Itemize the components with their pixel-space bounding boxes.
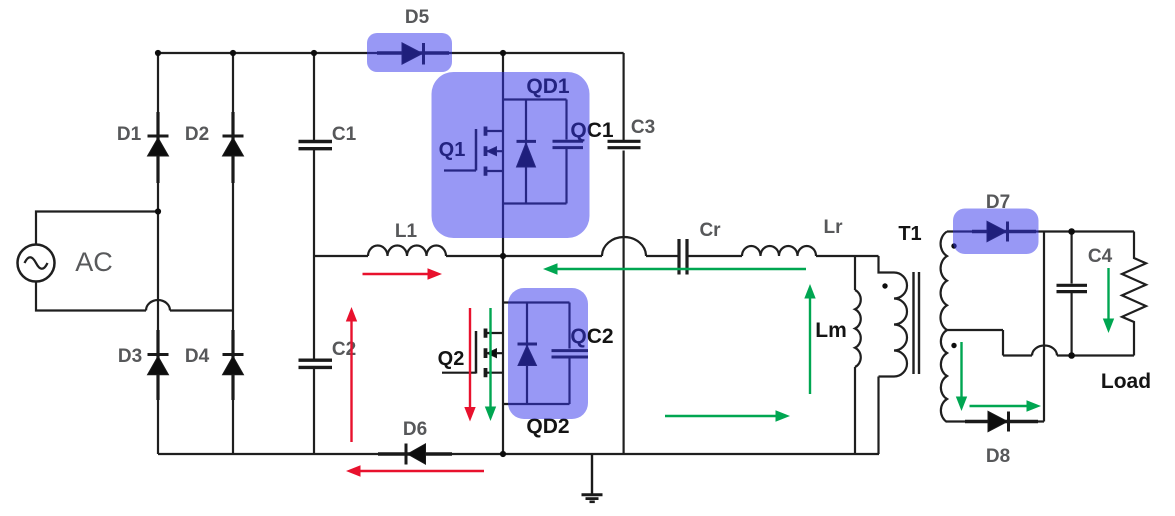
wire red current arrow right at L1 xyxy=(363,268,443,279)
wire QC2 upper lead xyxy=(568,303,570,349)
capacitor C4 xyxy=(1057,285,1088,291)
svg-text:T1: T1 xyxy=(898,223,921,245)
svg-text:D5: D5 xyxy=(405,7,430,28)
node T1 primary polarity dot xyxy=(882,283,887,288)
wire Lm lower lead xyxy=(854,367,856,454)
svg-text:C3: C3 xyxy=(631,117,655,138)
wire D7 cathode to output plus rail xyxy=(1008,230,1135,232)
wire QD2 QC2 top branch xyxy=(503,301,570,303)
transformer T1 secondary top winding xyxy=(940,232,947,331)
wire hop to Cr xyxy=(646,255,678,257)
node Q2 source bottom junction xyxy=(500,451,506,457)
svg-text:D2: D2 xyxy=(185,124,209,145)
wire QC1 upper lead xyxy=(565,100,567,140)
wire bottom rail xyxy=(158,453,879,455)
wire C4 upper lead xyxy=(1070,232,1072,284)
wire red current arrow up at C2 xyxy=(346,307,357,442)
diode QD2 (body diode of Q2) xyxy=(518,303,538,405)
wire AC source top lead xyxy=(36,212,158,246)
node half-bridge mid junction xyxy=(500,253,506,259)
wire secondary top to D7 xyxy=(947,230,987,232)
wire C1 to C2 column xyxy=(313,150,315,359)
wire C3 column lower xyxy=(622,151,624,455)
inductor Lm xyxy=(855,290,861,367)
svg-text:C4: C4 xyxy=(1088,246,1113,267)
node C4 top junction xyxy=(1068,228,1075,235)
node top rail C1 junction xyxy=(311,50,317,56)
svg-text:C1: C1 xyxy=(332,124,357,145)
highlight over D5 xyxy=(367,33,452,72)
transformer T1 core xyxy=(914,272,920,374)
capacitor C3 xyxy=(608,141,641,147)
node C4 bottom junction xyxy=(1068,352,1075,359)
wire crossover hop over D1/D3 column xyxy=(146,300,170,311)
svg-text:D3: D3 xyxy=(118,346,142,367)
highlight over Q1 block xyxy=(432,72,590,238)
wire QD1 QC1 bottom branch xyxy=(503,202,567,204)
wire crossover hop over D8 column xyxy=(1032,346,1057,356)
node top rail Q1 junction xyxy=(500,50,506,56)
op-amp none; transistor Q1 MOSFET xyxy=(444,127,503,176)
wire green current arrow down at C4 xyxy=(1103,268,1114,333)
wire center tap step xyxy=(947,330,1032,356)
transistor Q2 MOSFET xyxy=(442,329,503,378)
wire AC bottom to D2/D4 column xyxy=(170,309,233,311)
node T1 secondary top polarity dot xyxy=(951,243,956,248)
wire C3 column upper xyxy=(622,53,624,141)
diode D3 xyxy=(148,330,169,400)
resistor Load xyxy=(1122,232,1146,356)
diode D5 xyxy=(377,43,449,65)
wire Lr to transformer xyxy=(816,256,894,273)
wire Q2 column (mid node to bottom rail) xyxy=(502,256,504,454)
diode D4 xyxy=(223,330,244,400)
svg-text:Q2: Q2 xyxy=(438,348,465,370)
wire green current arrow down at Q2 xyxy=(485,308,496,421)
wire Cr to Lr xyxy=(689,255,743,257)
diode D2 xyxy=(223,112,244,183)
highlight over D7 xyxy=(953,209,1039,255)
wire AC source bottom lead xyxy=(36,282,146,311)
svg-text:Lm: Lm xyxy=(815,319,847,342)
wire red current arrow left bottom rail xyxy=(346,465,484,476)
wire QC1 lower lead xyxy=(565,149,567,204)
wire left bridge leg D1/D3 column xyxy=(157,53,159,454)
node top rail D2 junction xyxy=(230,50,236,56)
transformer T1 secondary bottom winding xyxy=(941,330,947,422)
svg-text:D6: D6 xyxy=(403,419,427,440)
wire Lm upper lead xyxy=(854,256,856,290)
svg-text:Cr: Cr xyxy=(699,220,721,241)
node T1 secondary bottom polarity dot xyxy=(951,343,956,348)
capacitor QC2 xyxy=(552,351,589,357)
wire crossover hop over C3 column xyxy=(602,237,646,256)
svg-text:Lr: Lr xyxy=(824,217,844,238)
diode D7 xyxy=(972,221,1036,241)
ground xyxy=(582,454,603,502)
wire D8 cathode column xyxy=(1008,232,1044,422)
diode QD1 (body diode of Q1) xyxy=(517,100,537,204)
transformer T1 primary winding xyxy=(894,273,907,377)
node top rail D1 junction xyxy=(155,50,161,56)
capacitor Cr plates xyxy=(679,239,687,275)
wire green current arrow up at Lm xyxy=(804,284,815,394)
wire QC2 lower lead xyxy=(568,359,570,405)
AC source xyxy=(18,245,55,282)
wire green current arrow right bottom rail xyxy=(665,410,790,421)
wire C1 column upper xyxy=(313,53,315,140)
diode D1 xyxy=(148,112,169,183)
svg-text:D4: D4 xyxy=(185,346,210,367)
wire C4 lower lead xyxy=(1070,293,1072,356)
svg-text:D1: D1 xyxy=(117,124,142,145)
inductor L1 xyxy=(368,246,446,257)
diode D6 xyxy=(378,444,452,465)
wire T1 primary bottom lead xyxy=(879,377,895,455)
highlight over QD2 QC2 block xyxy=(508,288,588,419)
wire output minus rail xyxy=(1057,354,1134,356)
wire green current arrow right at D8 xyxy=(970,400,1042,411)
wire L1 to half-bridge node xyxy=(446,255,602,257)
wire green current arrow resonant loop left xyxy=(543,263,806,275)
wire Q1 column (top rail to mid node) xyxy=(502,53,504,256)
wire QD1 QC1 top branch xyxy=(503,98,567,100)
capacitor C2 xyxy=(299,360,333,367)
capacitor C1 xyxy=(299,142,333,149)
inductor Lr xyxy=(742,246,816,256)
wire green current arrow down at secondary xyxy=(956,342,967,411)
svg-text:AC: AC xyxy=(75,247,113,277)
wire top rail xyxy=(158,52,624,54)
wire secondary bottom to D8 xyxy=(947,420,988,422)
wire mid rail to L1 xyxy=(314,255,368,257)
capacitor QC1 xyxy=(553,141,584,147)
node AC top junction xyxy=(155,208,161,214)
svg-text:L1: L1 xyxy=(395,221,418,242)
svg-text:D8: D8 xyxy=(986,446,1010,467)
wire red current arrow down at Q2 xyxy=(464,308,475,422)
diode D8 xyxy=(965,411,1038,431)
svg-text:Load: Load xyxy=(1101,370,1151,393)
wire C2 column lower xyxy=(313,369,315,455)
wire QD2 QC2 bottom branch xyxy=(503,403,570,405)
wire right bridge leg D2/D4 column xyxy=(232,53,234,454)
